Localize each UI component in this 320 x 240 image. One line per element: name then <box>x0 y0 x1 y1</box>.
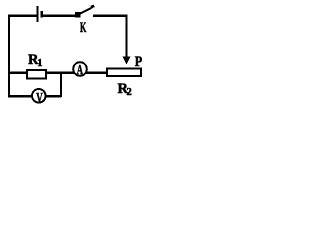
wire: top-left horizontal from left corner to battery <box>8 15 37 17</box>
switch K handle knob <box>91 6 94 7</box>
resistor R1 box <box>27 70 46 79</box>
svg-text:1: 1 <box>37 58 42 69</box>
wire: left vertical side <box>8 15 10 97</box>
wire: right vertical down to slider arrow <box>126 15 128 57</box>
svg-text:A: A <box>77 62 83 77</box>
wire: battery to switch <box>43 15 76 17</box>
svg-text:2: 2 <box>127 87 132 98</box>
ammeter A circle <box>73 62 87 76</box>
wire: voltmeter branch vertical <box>60 72 62 97</box>
switch K pivot square <box>75 12 80 18</box>
rheostat R2 box <box>107 68 141 76</box>
battery E short plate (negative) <box>40 11 43 18</box>
wire: bottom horizontal of voltmeter branch <box>8 95 61 97</box>
svg-text:V: V <box>36 91 43 107</box>
svg-text:K: K <box>80 20 87 36</box>
voltmeter V circle <box>32 89 46 103</box>
battery E long plate (positive) <box>37 6 39 22</box>
wire: switch to top-right corner <box>93 15 128 17</box>
wire: middle horizontal (R1 - ammeter - R2) <box>8 72 107 74</box>
slider arrow head <box>123 57 131 65</box>
switch K lever <box>79 8 93 15</box>
